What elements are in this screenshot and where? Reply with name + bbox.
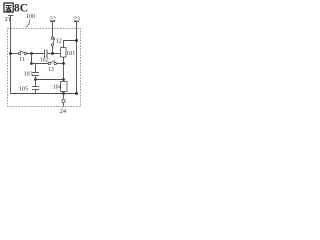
wire: second row [32, 63, 49, 65]
svg-text:21: 21 [5, 16, 11, 23]
wire: right rail [76, 22, 78, 94]
dashed enclosure box [8, 29, 81, 107]
switch 13 [48, 61, 56, 65]
wire: vertical link node B down [31, 54, 33, 64]
wire: terminal 22 drop [52, 22, 54, 38]
node I [75, 92, 78, 95]
figure title 图8C [4, 3, 13, 12]
wire [56, 63, 63, 65]
node at rail top [75, 39, 78, 42]
component box 101 [61, 48, 67, 57]
wire: left rail [10, 16, 12, 94]
node B [30, 52, 33, 55]
svg-text:104: 104 [53, 84, 62, 90]
wire: box 101 bottom stub [63, 57, 65, 64]
capacitor 103 [32, 64, 39, 80]
wire: vertical x63 [63, 64, 65, 80]
capacitor 105 [32, 80, 39, 94]
node H [62, 92, 65, 95]
wire: middle link row [36, 79, 64, 81]
node at left rail [9, 52, 12, 55]
wire: box 104 top stub [63, 80, 65, 82]
wire [47, 53, 61, 55]
wire: box 104 bottom stub [63, 92, 65, 94]
switch 11 [18, 51, 26, 55]
node E [62, 62, 65, 65]
component box 104 [61, 82, 68, 92]
svg-text:103: 103 [24, 71, 33, 77]
svg-text:101: 101 [66, 51, 75, 57]
terminal 23 bar [74, 21, 79, 23]
svg-text:12: 12 [56, 38, 62, 44]
terminal 21 bar [8, 15, 13, 17]
node G [62, 78, 65, 81]
svg-text:13: 13 [48, 67, 54, 73]
svg-text:11: 11 [19, 57, 25, 63]
node C [51, 52, 54, 55]
wire: top right link [64, 41, 77, 48]
capacitor 102 [45, 50, 48, 58]
svg-text:105: 105 [19, 86, 28, 92]
terminal 24 [63, 94, 65, 100]
svg-text:102: 102 [40, 57, 49, 63]
wire: bottom bus [11, 93, 77, 95]
wire [27, 53, 44, 55]
terminal 22 bar [50, 21, 55, 23]
node F [34, 78, 37, 81]
leader squiggle for 100 [27, 20, 31, 28]
switch 12 [51, 37, 55, 46]
svg-text:24: 24 [60, 108, 67, 115]
svg-text:100: 100 [26, 13, 35, 20]
wire: switch 12 to node [52, 46, 54, 53]
wire: main horizontal (node A row) [11, 53, 19, 55]
node D [30, 62, 33, 65]
